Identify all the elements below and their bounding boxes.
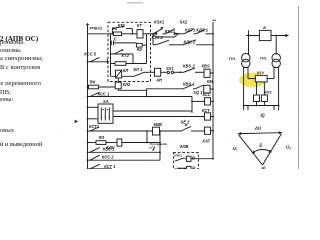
relay coil XAT: [205, 127, 211, 134]
svg-text:КSV: КSV: [257, 71, 265, 75]
wire KT2 row to row4: [132, 54, 134, 64]
wire KM to bus: [210, 88, 214, 90]
svg-text:КSS1: КSS1: [165, 29, 176, 34]
rung KSS5: [87, 57, 109, 63]
wire SA output to riser: [113, 110, 192, 112]
wire KT coil to node A: [143, 33, 153, 35]
contact KDT1: [184, 29, 196, 34]
svg-text:КТ1: КТ1: [118, 23, 126, 28]
relay coil KBS: [204, 69, 210, 77]
svg-text:КДС 1: КДС 1: [196, 27, 209, 32]
svg-text:КСС: КСС: [203, 92, 211, 97]
wire second rung: [153, 44, 156, 46]
contact KT1 bypass: [112, 26, 134, 35]
wire XAT to bus: [211, 130, 214, 132]
phasor U2 vector: [263, 134, 282, 165]
svg-text:В: В: [263, 26, 266, 30]
bottom bus of b: [243, 105, 280, 107]
rung KST1 KBV: [87, 127, 153, 132]
element O rect: [186, 166, 191, 171]
breaker B: [259, 30, 271, 40]
terminal stubs: [244, 106, 279, 111]
wire SA input 1: [87, 106, 98, 108]
rung R4: [87, 86, 116, 88]
node rung2 minus bus: [212, 44, 214, 46]
angle delta arc: [252, 150, 272, 154]
wire node B to KDT1: [178, 33, 184, 35]
wire KL coil to KL2: [117, 78, 119, 82]
svg-text:КВС 1: КВС 1: [103, 147, 115, 152]
minus terminal: [213, 19, 216, 22]
wires KSV to KSS: [257, 82, 265, 95]
rung KL row: [111, 75, 135, 77]
svg-text:ТV2: ТV2: [260, 57, 268, 61]
node B: [177, 33, 179, 35]
svg-text:КСТ 1: КСТ 1: [104, 164, 116, 169]
resistor R4: [89, 85, 99, 89]
wire KSS coil rung: [192, 100, 205, 102]
node C: [179, 71, 181, 73]
wire R1 to KT coil: [122, 33, 138, 35]
svg-text:АПВ 2: АПВ 2: [173, 154, 183, 158]
svg-text:КЗХ1: КЗХ1: [154, 19, 165, 24]
phasor U1 vector: [239, 135, 263, 165]
relay coil KDS: [117, 139, 122, 146]
svg-text:R4: R4: [90, 80, 96, 85]
svg-text:SХ1: SХ1: [166, 66, 174, 71]
left bus: [87, 26, 89, 170]
connector SX1: [167, 71, 173, 73]
wire V to bus: [191, 158, 214, 160]
wire AN to connector SX1: [161, 71, 167, 73]
rung KVS1: [87, 147, 160, 153]
inner rail of RPV-01: [110, 34, 112, 77]
contact KT2: [114, 49, 124, 54]
wire drop to TV2: [275, 35, 277, 55]
svg-text:АПВ: АПВ: [179, 144, 189, 149]
svg-text:КСС 1: КСС 1: [98, 91, 111, 96]
wire SX1 to node C: [174, 71, 183, 73]
wire KSV right: [267, 78, 274, 80]
wire riser to KBS1 row: [146, 89, 148, 97]
svg-text:КТ2: КТ2: [122, 53, 130, 58]
svg-text:КМ: КМ: [207, 79, 214, 84]
tie line arrow: [285, 34, 289, 37]
svg-text:АН: АН: [155, 77, 163, 82]
svg-text:δ: δ: [259, 143, 262, 148]
transformer TV1: [242, 54, 250, 68]
svg-text:КЛ: КЛ: [123, 68, 129, 73]
relay KL2 element: [115, 82, 121, 89]
svg-text:КДТ1: КДТ1: [185, 27, 196, 32]
svg-text:ХАТ: ХАТ: [201, 139, 210, 144]
svg-text:КДС 2: КДС 2: [184, 39, 197, 44]
svg-text:КСС 5: КСС 5: [84, 52, 97, 57]
contact APV2: [175, 158, 187, 162]
node KBS bus: [212, 72, 214, 74]
plus terminal: [86, 23, 89, 26]
node top of minus bus: [212, 33, 214, 35]
wires KSS to bottom bus: [257, 102, 265, 106]
contact KBS1: [183, 85, 195, 89]
svg-text:КВS 2: КВS 2: [183, 63, 195, 68]
rung KST1 bottom clipped: [88, 164, 113, 169]
relay KSS windings: [254, 95, 268, 102]
rung KSS2: [87, 155, 160, 161]
contact KBS2: [183, 68, 205, 73]
svg-text:КСТ1: КСТ1: [89, 124, 100, 129]
wire SA output 2 KST rung: [113, 116, 205, 118]
svg-text:КВS 1: КВS 1: [183, 81, 195, 86]
svg-text:В: В: [192, 155, 195, 160]
rung R3 KDS: [87, 142, 160, 144]
TV1 secondary leads: [244, 67, 248, 106]
svg-text:ΔU̇: ΔU̇: [254, 125, 262, 130]
svg-text:КЗХ 2: КЗХ 2: [152, 35, 164, 40]
wire drop to TV1: [248, 30, 250, 54]
svg-text:R1: R1: [112, 26, 118, 31]
contact KSS1 parallel branch: [153, 34, 178, 37]
relay coil KL: [116, 70, 122, 78]
wire C to R2: [114, 42, 137, 44]
wire KSS to bus: [211, 101, 214, 103]
svg-text:в): в): [262, 165, 267, 169]
svg-text:С: С: [114, 37, 117, 42]
left column cut-off book text: [0, 36, 38, 43]
contact KDS1: [196, 29, 213, 34]
svg-text:КВS: КВS: [202, 63, 210, 68]
annotation arrow: [153, 148, 155, 151]
TV2 secondary leads: [274, 67, 279, 106]
svg-text:б): б): [261, 113, 266, 118]
row4 rung: [111, 63, 147, 65]
svg-text:КЛ2: КЛ2: [123, 82, 131, 87]
contact KL1: [134, 72, 155, 76]
relay coil KST: [205, 113, 211, 120]
contact SX2: [166, 29, 179, 34]
node A: [152, 33, 154, 35]
riser x147: [146, 130, 148, 143]
margin arrow mark: [75, 120, 79, 124]
transformer TV2: [272, 54, 280, 68]
rail x160: [159, 130, 161, 160]
svg-text:РПВ-01: РПВ-01: [90, 26, 103, 30]
svg-text:КЛ 1: КЛ 1: [134, 67, 143, 72]
resistor KV row4: [115, 62, 126, 66]
contact KZX1: [153, 27, 166, 34]
svg-text:R3: R3: [99, 135, 105, 140]
tie line wire: [246, 35, 285, 37]
wire KL2 down and east: [118, 89, 146, 91]
contact KZX2: [156, 40, 183, 45]
rung KSS1: [87, 92, 192, 97]
wire bus to R1: [88, 33, 114, 35]
relay coil KT: [137, 30, 143, 38]
element V rect: [186, 156, 191, 161]
svg-text:SХ2: SХ2: [180, 20, 188, 25]
yellow highlighter mark: [239, 73, 266, 88]
wire R2 up to rung1: [142, 34, 146, 45]
wire SA input 2: [87, 118, 98, 120]
contact KDS2: [183, 40, 213, 45]
contact KT2 rung: [111, 53, 134, 55]
svg-text:КСТ: КСТ: [202, 108, 210, 113]
svg-text:SЕ 2: SЕ 2: [181, 119, 191, 124]
resistor AN: [155, 68, 161, 76]
paper noise: [0, 0, 300, 169]
page edge line: [298, 6, 300, 169]
contact SQ1: [195, 85, 204, 89]
wire drop node A to second rung: [152, 34, 154, 45]
svg-text:SА: SА: [103, 99, 109, 104]
capacitor C: [111, 41, 114, 46]
wire KBS coil to bus: [210, 72, 213, 74]
resistor R3: [96, 141, 106, 145]
relay module RPV-01 dashed box: [108, 22, 151, 81]
relay coil KSS: [205, 98, 211, 105]
svg-text:КСС 2: КСС 2: [102, 155, 115, 160]
wire row4 link: [146, 45, 148, 63]
relay coil KBV: [153, 127, 160, 135]
wire KBV to SQ2: [160, 130, 182, 132]
svg-text:КSS: КSS: [264, 91, 272, 95]
svg-text:R2: R2: [137, 47, 143, 52]
resistor R1: [114, 32, 122, 36]
resistor R2: [136, 43, 142, 47]
wire into KSV left: [248, 78, 255, 80]
contact SQ2: [181, 124, 205, 131]
switch block SA: [98, 104, 113, 123]
relay coil KSV: [255, 75, 267, 82]
wire KST to bus: [211, 116, 214, 118]
svg-text:КТ: КТ: [137, 23, 143, 28]
rung KBS1 SQ1: [147, 88, 184, 90]
right bus: [212, 22, 214, 159]
svg-text:КБВ: КБВ: [154, 122, 162, 127]
relay coil KM: [204, 85, 210, 93]
wire to O element: [177, 167, 186, 169]
wire riser x192: [191, 97, 193, 114]
APV dashed box: [173, 153, 198, 169]
scan artifact smudge: [127, 2, 143, 4]
svg-text:ТV1: ТV1: [229, 57, 236, 61]
phasor dU vector: [237, 131, 282, 135]
